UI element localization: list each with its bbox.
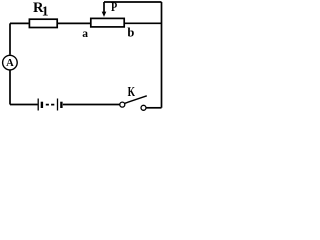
svg-text:K: K — [128, 85, 135, 100]
svg-text:P: P — [111, 0, 117, 14]
svg-text:a: a — [82, 28, 88, 40]
svg-text:A: A — [6, 58, 14, 69]
svg-text:1: 1 — [42, 3, 49, 18]
svg-text:b: b — [127, 26, 134, 40]
